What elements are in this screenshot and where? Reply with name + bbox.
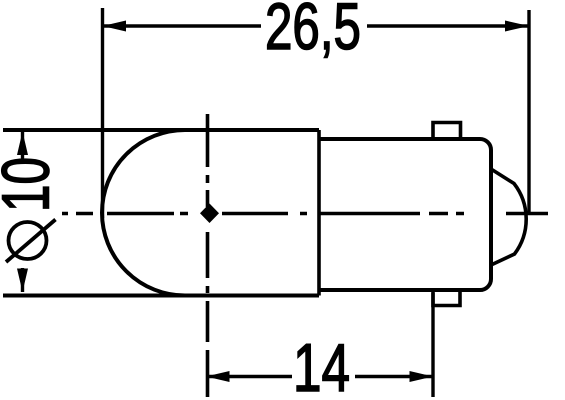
- solder tip contact: [491, 169, 526, 265]
- dimension 26,5 left extension line: [101, 8, 104, 218]
- dimension 26,5 line right segment: [367, 24, 529, 27]
- glass envelope bottom line with extension to left edge: [3, 294, 319, 298]
- glass/base junction line: [317, 130, 321, 296]
- metal base outline: [319, 139, 491, 290]
- dimension 26,5 line left segment: [103, 24, 262, 27]
- diameter symbol slash: [6, 220, 56, 263]
- svg-text:26,5: 26,5: [265, 0, 361, 63]
- glass envelope top line with extension to left edge: [3, 128, 319, 132]
- top bayonet pin: [433, 123, 461, 140]
- dimension o10 bottom arrowhead: [17, 269, 28, 293]
- dimension 14 left arrowhead: [206, 371, 230, 382]
- dimension 26,5 left arrowhead: [103, 21, 127, 32]
- center mark thick dot: [200, 204, 219, 224]
- dimension o10 vertical line bottom stub: [21, 268, 24, 292]
- dimension 26,5 right extension line: [527, 10, 530, 215]
- dimension 14 line left segment: [206, 375, 292, 378]
- svg-text:14: 14: [293, 330, 350, 400]
- dimension o10 top arrowhead: [17, 132, 28, 156]
- dimension 26,5 right arrowhead: [505, 21, 529, 32]
- glass dome arc: [102, 130, 185, 296]
- dimension 14 line right segment: [355, 375, 433, 378]
- diameter symbol circle: [9, 222, 47, 259]
- dimension 14 right extension line: [431, 293, 434, 397]
- horizontal centerline dash-dot: [62, 212, 548, 215]
- svg-text:10: 10: [0, 157, 64, 212]
- vertical centerline dash-dot: [206, 114, 210, 397]
- dimension o10 vertical line top stub: [21, 131, 24, 162]
- bottom bayonet pin: [433, 290, 460, 306]
- dimension 14 right arrowhead: [410, 371, 434, 382]
